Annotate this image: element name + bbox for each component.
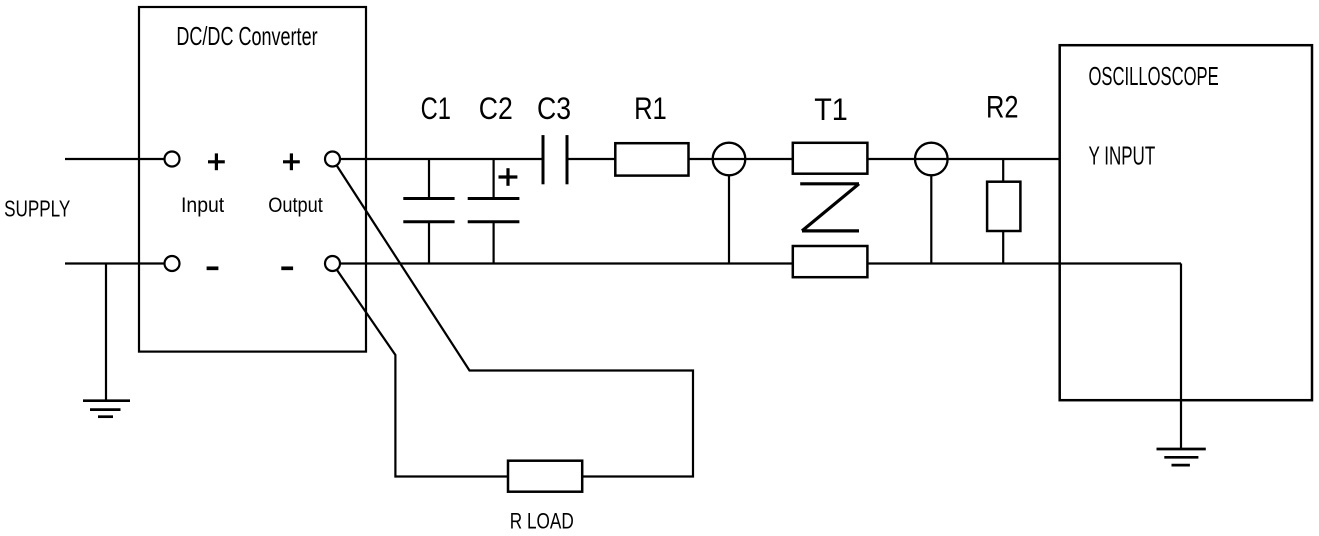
probe circle node 2 bbox=[915, 143, 948, 176]
plus sign (input) bbox=[208, 153, 225, 170]
svg-text:R1: R1 bbox=[634, 90, 667, 126]
oscilloscope box bbox=[1060, 45, 1312, 400]
wire supply bottom bbox=[65, 262, 172, 264]
terminal output - bbox=[325, 256, 340, 271]
capacitor C2 bbox=[468, 159, 520, 264]
terminal output + bbox=[325, 152, 340, 167]
minus sign (output) bbox=[281, 266, 293, 270]
wire output- to R LOAD (diagonal, left side) bbox=[333, 264, 509, 477]
wire probe 1 drop bbox=[728, 175, 730, 263]
svg-text:C3: C3 bbox=[537, 90, 571, 126]
DC/DC converter box U1 bbox=[139, 7, 366, 352]
capacitor C1 bbox=[403, 159, 454, 264]
C2 polarity plus sign bbox=[499, 168, 518, 186]
svg-text:SUPPLY: SUPPLY bbox=[4, 196, 70, 222]
resistor R1 bbox=[615, 143, 688, 175]
terminal input + bbox=[165, 152, 180, 167]
wire R2 top stub bbox=[1002, 159, 1004, 182]
terminal input - bbox=[165, 256, 180, 271]
plus sign (output) bbox=[283, 153, 300, 170]
svg-text:T1: T1 bbox=[814, 91, 848, 127]
svg-text:Y INPUT: Y INPUT bbox=[1089, 141, 1156, 171]
svg-text:Output: Output bbox=[268, 194, 323, 217]
minus sign (input) bbox=[207, 266, 219, 270]
probe circle node 1 bbox=[713, 143, 746, 176]
wire top rail: T1 to oscilloscope (through probe circle 2) bbox=[867, 158, 1059, 160]
wire output+ to R LOAD (diagonal, top, right side) bbox=[333, 159, 694, 477]
svg-text:R2: R2 bbox=[986, 89, 1019, 125]
wire bottom rail: T1 bottom to oscilloscope ground stem bbox=[867, 262, 1181, 264]
wire bottom rail: output- to T1 bottom bbox=[333, 262, 793, 264]
wire probe 2 drop bbox=[930, 175, 932, 263]
ground GND1 (supply) bbox=[83, 401, 130, 417]
wire ground stem (supply) bbox=[105, 264, 107, 401]
svg-text:OSCILLOSCOPE: OSCILLOSCOPE bbox=[1089, 61, 1219, 91]
wire supply top bbox=[65, 158, 172, 160]
ground GND2 (oscilloscope) bbox=[1157, 449, 1206, 465]
svg-text:C2: C2 bbox=[479, 90, 513, 126]
wire top rail: R1 to T1 (through probe circle 1) bbox=[689, 158, 793, 160]
svg-text:C1: C1 bbox=[421, 90, 451, 126]
wire top rail: C3 right plate to R1 bbox=[567, 158, 615, 160]
transformer T1 bottom winding box bbox=[793, 246, 868, 277]
resistor R LOAD bbox=[508, 461, 582, 492]
wire top rail: output+ to C3 left plate bbox=[333, 158, 544, 160]
svg-text:DC/DC Converter: DC/DC Converter bbox=[176, 21, 317, 51]
resistor R2 bbox=[987, 182, 1020, 231]
svg-text:R LOAD: R LOAD bbox=[510, 508, 574, 533]
wire oscilloscope ground stem bbox=[1180, 264, 1182, 450]
transformer T1 core Z symbol bbox=[800, 184, 859, 231]
svg-text:Input: Input bbox=[181, 194, 224, 217]
capacitor C3 bbox=[543, 135, 567, 184]
transformer T1 top winding box bbox=[793, 143, 868, 174]
wire R2 bottom stub bbox=[1002, 231, 1004, 264]
